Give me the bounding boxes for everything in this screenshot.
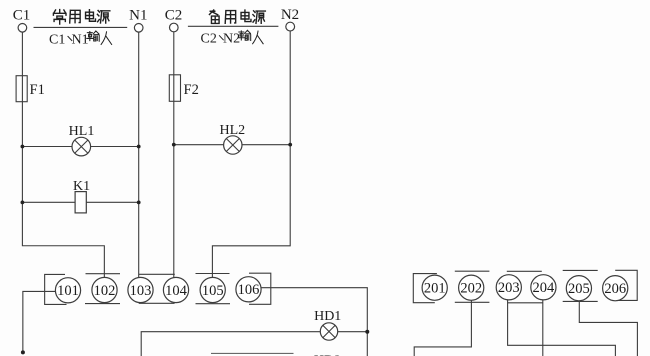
fuse F2 [169, 75, 180, 102]
lamp HL2 [219, 123, 245, 154]
bracket terminal 206 [615, 270, 637, 300]
terminal 103 [128, 277, 153, 302]
svg-text:102: 102 [94, 283, 116, 299]
svg-text:106: 106 [238, 282, 260, 298]
bracket terminal 101 [45, 274, 67, 304]
svg-text:HD1: HD1 [314, 309, 341, 324]
svg-text:N1: N1 [129, 8, 147, 24]
svg-text:C1: C1 [49, 32, 65, 47]
terminal C2 [170, 23, 179, 32]
wire N1 vertical down to terminal 103 [138, 32, 140, 277]
bar above terminals 103-104 [139, 273, 175, 275]
svg-text:N1: N1 [72, 32, 89, 47]
bar above terminal 205 [563, 269, 598, 271]
terminal N1 [134, 24, 143, 33]
junction dot HD1/106 wire [365, 330, 369, 334]
svg-text:203: 203 [498, 280, 520, 296]
svg-text:F1: F1 [30, 82, 45, 98]
wire terminal 101 to bottom node [23, 291, 56, 352]
wire HL1 row [22, 146, 138, 148]
bar below terminal 105 [196, 303, 231, 305]
terminal 104 [163, 277, 188, 302]
wire N2 vertical down to terminal 105 [212, 31, 290, 277]
svg-text:206: 206 [604, 281, 626, 297]
terminal 102 [92, 277, 117, 302]
junction dot bottom left [21, 350, 25, 354]
svg-text:201: 201 [424, 281, 446, 297]
bracket terminal 201 [413, 274, 437, 303]
wire terminal 204 to bottom [542, 300, 544, 356]
bar above terminal 202 [455, 270, 490, 272]
header underline 2 [188, 25, 279, 27]
svg-text:N2: N2 [223, 32, 240, 47]
bridge below terminals 203-204 [508, 302, 543, 304]
svg-text:C2: C2 [201, 32, 217, 47]
svg-text:205: 205 [568, 281, 590, 297]
wire terminal 205 to bottom right [579, 301, 637, 356]
terminal 201 [422, 275, 447, 300]
svg-text:204: 204 [533, 280, 556, 296]
svg-text:F2: F2 [184, 82, 199, 98]
terminal 105 [200, 277, 225, 302]
terminal C1 [18, 24, 27, 33]
header underline 1 [34, 26, 128, 28]
svg-text:103: 103 [130, 283, 152, 299]
label C2、N2 input [201, 30, 264, 46]
terminal 106 [236, 277, 261, 302]
wire HD1 row [141, 332, 367, 356]
wire C1 vertical down to terminal 102 [22, 32, 104, 277]
wire C2 vertical down to terminal 104 [173, 32, 175, 277]
wire terminal 202 to bottom [414, 300, 471, 356]
svg-text:202: 202 [460, 281, 482, 297]
relay coil K1 [73, 179, 90, 213]
lamp HL1 [69, 124, 95, 156]
junction dot N1/K1 [137, 200, 141, 204]
junction dot N2/HL2 [288, 143, 292, 147]
junction dot C1/K1 [21, 200, 25, 204]
bar below terminals 103-104 [139, 302, 175, 304]
label C1、N1 input [49, 31, 112, 47]
lamp HD1 [314, 309, 341, 340]
label 常用电源 (normal power source) [53, 10, 109, 24]
junction dot C2/HL2 [172, 143, 176, 147]
bar below terminal 102 [85, 303, 120, 305]
junction dot N1/HL1 [137, 145, 141, 149]
svg-text:104: 104 [165, 283, 188, 299]
junction dot C1/HL1 [21, 145, 25, 149]
bar above terminal 105 [196, 273, 230, 275]
fuse F1 [16, 76, 27, 102]
bracket terminal 106 [249, 273, 271, 304]
terminal N2 [286, 22, 295, 31]
bar below terminal 202 [455, 301, 490, 303]
box edge cut off at bottom [211, 352, 294, 354]
bar above terminal 102 [86, 273, 121, 275]
terminal 206 [603, 276, 628, 301]
svg-text:101: 101 [57, 283, 79, 299]
bar below terminal 205 [563, 300, 598, 302]
terminal 202 [459, 275, 484, 300]
svg-text:N2: N2 [281, 7, 299, 23]
svg-text:C1: C1 [13, 8, 31, 24]
svg-text:105: 105 [202, 283, 224, 299]
terminal 203 [496, 275, 521, 300]
wire terminal 203 to bottom right [508, 300, 616, 356]
terminal 204 [531, 275, 556, 300]
wire terminal 106 to HD1 junction and bottom [261, 288, 367, 356]
terminal 101 [55, 278, 80, 303]
label 备用电源 (standby power source) [209, 10, 265, 23]
wire K1 row [22, 201, 138, 203]
svg-text:C2: C2 [165, 8, 183, 24]
terminal 205 [566, 276, 591, 301]
bridge above terminals 203-204 [507, 270, 542, 272]
wire HL2 row [174, 144, 290, 146]
